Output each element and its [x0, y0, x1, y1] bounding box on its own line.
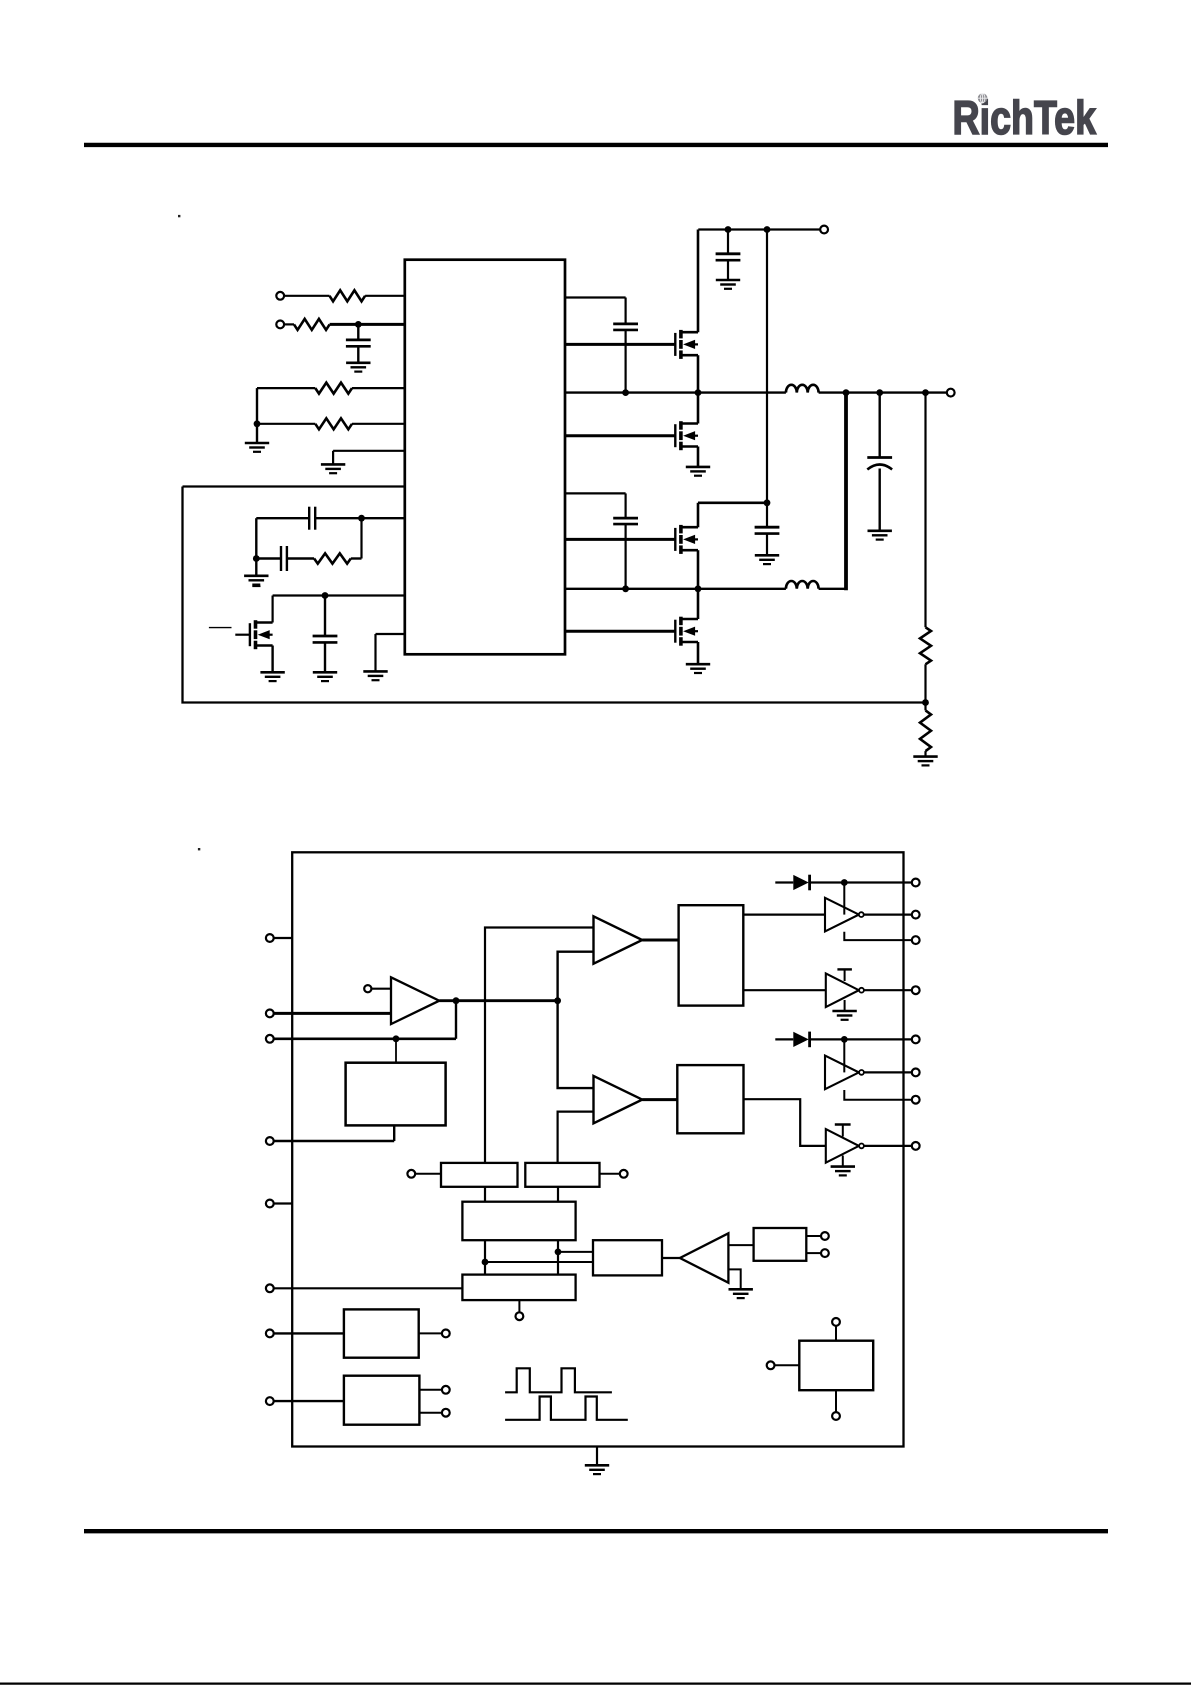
ground LG2: [831, 1156, 855, 1176]
wire BOOT1 net: [810, 879, 912, 886]
inductor L2: [786, 581, 819, 589]
wire UGATE1 out: [864, 913, 912, 915]
wire VOUT drop: [924, 393, 926, 628]
resistor R7: [920, 703, 931, 752]
op-amp EA: [391, 977, 439, 1024]
terminal UGATE2: [912, 1069, 920, 1077]
ground LG1: [832, 1000, 856, 1020]
wire phase2: [565, 585, 786, 592]
wire drive2 route: [744, 1099, 826, 1146]
comparator CMP1: [594, 916, 643, 963]
reference block: [754, 1228, 807, 1261]
wire R1 to U1: [365, 295, 405, 297]
wire FB loop top: [183, 485, 405, 487]
transistor Q2: [675, 421, 698, 450]
wire L2 to out: [819, 588, 846, 590]
wire ramp1 bus: [485, 928, 594, 1163]
ground C4: [313, 643, 337, 682]
transistor Q5: [235, 620, 272, 649]
ground Q2: [686, 467, 710, 476]
wire comp1 inv: [558, 952, 594, 1001]
terminal PHASE2: [912, 1096, 920, 1104]
node EA ref input: [364, 985, 391, 992]
node ctrl tap: [516, 1300, 524, 1320]
soft-start block: [346, 1063, 446, 1126]
stray dash B: [252, 585, 260, 587]
enable block 2: [344, 1376, 420, 1425]
wire LGATE1: [565, 434, 675, 437]
wire COMP line: [256, 517, 309, 519]
terminal PHASE1: [912, 936, 920, 944]
wire GND pin: [376, 634, 405, 671]
wire VIN drop: [766, 230, 768, 503]
por block: [799, 1341, 873, 1391]
transistor Q3: [675, 525, 698, 554]
driver DRV-UG1: [825, 898, 859, 932]
wire BOOT2 net: [810, 1036, 912, 1043]
terminal RT pin: [266, 1200, 292, 1208]
node en2 out2: [419, 1409, 449, 1417]
wire C2 to U1: [315, 515, 405, 522]
capacitor C1: [346, 324, 371, 346]
wire C8 to phase2: [624, 525, 626, 589]
capacitor C2: [309, 507, 315, 530]
terminal EN1 pin: [266, 1330, 344, 1338]
ground C1: [346, 346, 370, 371]
ground C7: [868, 469, 892, 540]
wire comp2 noninv: [558, 1001, 594, 1088]
wire Q1 drain: [697, 230, 700, 333]
capacitor C6 boot1: [613, 324, 638, 330]
wire q1 to sel: [485, 1261, 593, 1263]
node ref tap2: [806, 1249, 829, 1257]
transistor Q4: [675, 617, 698, 646]
node por top: [832, 1318, 840, 1341]
wire LGATE1 out: [864, 989, 912, 991]
wire R6 to node: [922, 664, 929, 706]
node ref tap1: [806, 1232, 829, 1240]
terminal LGATE1: [912, 986, 920, 994]
page edge line: [0, 1682, 1191, 1684]
bubble LG1: [859, 988, 864, 993]
wire SGND pin: [333, 451, 405, 464]
wire Q3 drain: [698, 499, 770, 527]
capacitor C3: [256, 546, 287, 571]
capacitor C7 out: [867, 393, 892, 470]
wire PHASE2 net: [844, 1090, 912, 1100]
capacitor C5: [716, 230, 741, 261]
comparator CMP3: [662, 1233, 728, 1282]
wire UGATE2 out: [864, 1071, 912, 1073]
wire Q4 source: [697, 642, 700, 664]
driver DRV-UG2: [825, 1056, 859, 1090]
wire q2 to sel: [558, 1251, 593, 1253]
logic block 1: [679, 905, 744, 1005]
wire phase1: [565, 389, 786, 396]
terminal VOUT: [947, 389, 955, 397]
resistor R1: [330, 290, 366, 301]
waveform phase clocks: [505, 1368, 628, 1420]
node ramp1 tap: [407, 1170, 441, 1178]
wire Q5 drain: [273, 592, 405, 622]
wire Q2 drain: [697, 393, 700, 424]
terminal EN2 pin: [266, 1397, 344, 1405]
svg-text:RichTek: RichTek: [953, 91, 1097, 144]
diode D2: [775, 1032, 809, 1048]
control logic block: [462, 1275, 575, 1301]
wire L1 to out: [819, 389, 947, 396]
wire drive1 hi: [743, 913, 824, 915]
wire drive1 lo: [743, 989, 826, 991]
capacitor C8 boot2: [613, 518, 638, 524]
ground C9: [755, 534, 779, 565]
terminal BOOT2: [912, 1036, 920, 1044]
resistor R5: [287, 553, 362, 563]
wire R2 to U1: [330, 323, 405, 326]
wire r1 osc: [484, 1187, 486, 1202]
inductor L1: [786, 385, 819, 393]
ramp gen 2 block: [525, 1163, 599, 1187]
wire COMP riser: [455, 1001, 457, 1039]
bubble UG2: [859, 1070, 864, 1075]
terminal VCC: [276, 321, 294, 329]
ground SGND: [321, 464, 345, 473]
wire CMP1 out: [642, 939, 678, 942]
comparator CMP2: [594, 1076, 643, 1123]
stray dash A: [209, 627, 232, 629]
node comp left: [253, 518, 260, 562]
ground R7: [913, 751, 937, 765]
capacitor C4: [313, 596, 338, 643]
wire r2 osc: [557, 1187, 559, 1202]
wire Q2 source: [697, 447, 700, 467]
transistor Q1: [675, 330, 698, 359]
wire comp up: [360, 518, 362, 558]
stray mark top: [178, 215, 180, 217]
ramp gen 1 block: [441, 1163, 518, 1187]
terminal VIN: [820, 226, 828, 234]
wire BOOT2: [565, 493, 626, 517]
wire SS top: [395, 1039, 397, 1063]
node en2 out1: [419, 1386, 449, 1394]
wire D1 to drv: [843, 883, 845, 915]
ground GND pin: [363, 671, 387, 680]
driver DRV-LG1: [826, 969, 859, 1007]
wire osc q1: [482, 1240, 489, 1274]
wire phase2 riser: [844, 393, 848, 591]
logic block 2: [677, 1065, 743, 1133]
driver DRV-LG2: [826, 1125, 859, 1163]
oscillator block: [462, 1202, 575, 1241]
terminal OCSET pin: [266, 934, 292, 942]
node por left: [767, 1361, 800, 1369]
wire D2 to drv: [843, 1039, 845, 1072]
IC U1 (PWM controller): [405, 260, 565, 655]
ground C5: [716, 260, 740, 289]
terminal LGATE2: [912, 1142, 920, 1150]
wire Q1 source: [697, 355, 700, 392]
terminal UGATE1: [912, 911, 920, 919]
ground comp: [244, 559, 268, 585]
wire LGATE2 out: [864, 1145, 912, 1147]
RichTek logo: [953, 91, 1097, 144]
terminal FB pin: [266, 1010, 391, 1018]
diode D1: [775, 875, 809, 891]
wire UGATE1: [565, 343, 675, 346]
terminal SS pin: [266, 1137, 394, 1145]
ground Q4: [686, 664, 710, 673]
ground CMP3: [729, 1289, 753, 1298]
capacitor C9: [755, 503, 780, 534]
wire Q4 drain: [697, 589, 700, 619]
bubble UG1: [859, 912, 864, 917]
wire CMP3 in1: [728, 1244, 753, 1246]
node ramp2 tap: [600, 1170, 628, 1178]
wire osc q2: [555, 1240, 562, 1274]
footer rule: [84, 1529, 1108, 1533]
wire Q3 source: [697, 550, 700, 589]
ground R-rail: [245, 443, 269, 452]
terminal BOOT1: [912, 879, 920, 887]
wire BOOT1: [565, 298, 626, 324]
resistor R2: [294, 319, 330, 330]
resistor R6: [920, 627, 931, 664]
node R3/R4 rail: [254, 388, 261, 443]
wire C6 to phase: [624, 330, 626, 392]
terminal COMP pin: [266, 1035, 456, 1043]
wire LGATE2: [565, 630, 675, 633]
wire EA out: [439, 997, 561, 1004]
node en1 out: [419, 1330, 450, 1338]
resistor R3: [257, 383, 405, 394]
wire PHASE1 net: [844, 932, 912, 940]
bubble LG2: [859, 1144, 864, 1149]
enable block 1: [344, 1309, 419, 1357]
wire CMP2 out: [642, 1098, 677, 1101]
terminal SYNC pin: [266, 1284, 463, 1292]
wire comp2 ramp: [558, 1112, 594, 1163]
wire SS bottom: [393, 1125, 395, 1141]
ground box: [585, 1447, 609, 1475]
node VCC junction: [355, 321, 362, 328]
wire VIN rail: [698, 226, 820, 233]
stray mark mid: [198, 848, 200, 850]
block diagram border U2: [292, 852, 903, 1446]
terminal VIN-sense: [276, 292, 329, 300]
wire UGATE2: [565, 538, 675, 541]
resistor R4: [257, 418, 405, 429]
node por bottom: [832, 1390, 840, 1420]
ground Q5: [260, 646, 284, 682]
wire CMP3 in2: [728, 1269, 740, 1289]
header rule: [84, 143, 1108, 147]
wire FB loop: [183, 487, 926, 703]
phase select block: [593, 1240, 662, 1275]
